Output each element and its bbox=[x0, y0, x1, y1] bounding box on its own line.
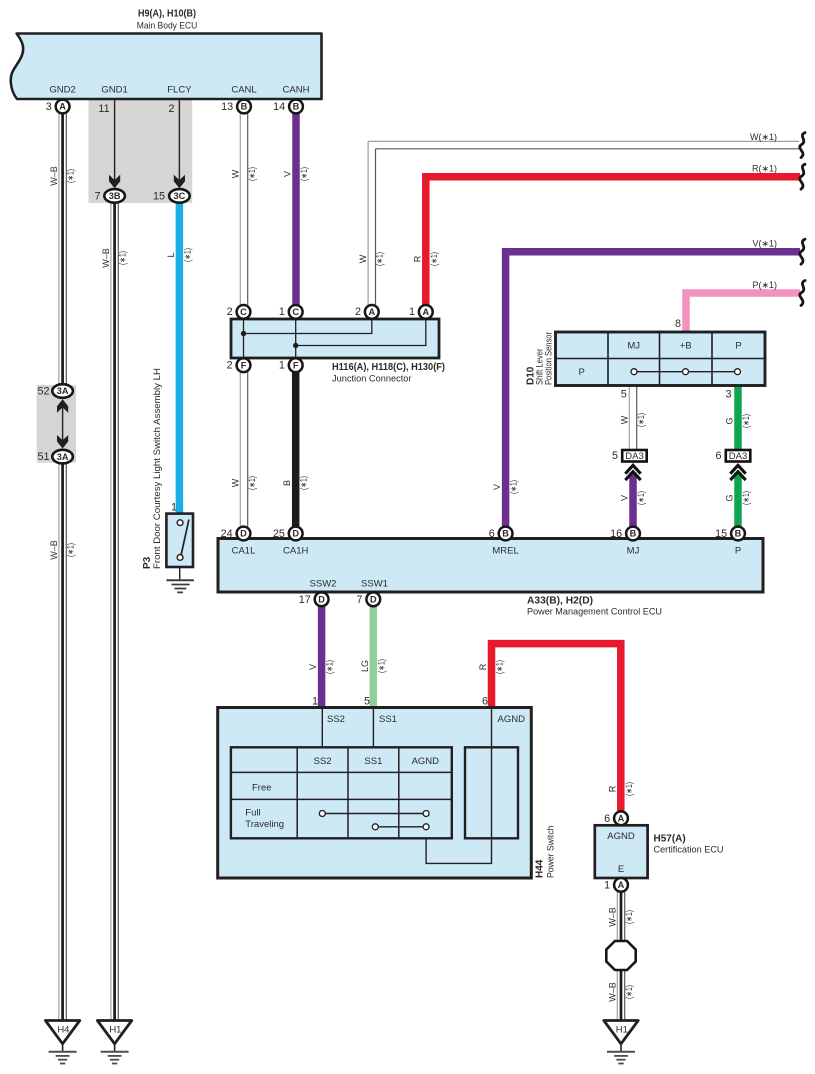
svg-text:P(∗1): P(∗1) bbox=[752, 280, 777, 290]
svg-text:25: 25 bbox=[273, 528, 285, 540]
svg-text:(∗1): (∗1) bbox=[299, 167, 309, 181]
link line between 3A connectors bbox=[62, 405, 64, 442]
P3 switch contact top bbox=[177, 520, 183, 526]
svg-text:DA3: DA3 bbox=[729, 451, 747, 462]
pin 14 circle B (CANH) bbox=[273, 100, 303, 114]
contact line SS2-AGND bbox=[322, 813, 426, 815]
svg-text:52: 52 bbox=[37, 386, 49, 398]
svg-text:W(∗1): W(∗1) bbox=[750, 132, 777, 142]
D10 contact circle P bbox=[735, 369, 741, 375]
break symbol P wire bbox=[800, 281, 805, 306]
svg-text:(∗1): (∗1) bbox=[325, 660, 335, 674]
svg-text:1: 1 bbox=[312, 696, 318, 708]
svg-text:(∗1): (∗1) bbox=[741, 414, 751, 428]
svg-text:B: B bbox=[735, 529, 742, 539]
shield gray box left (52/51 3A) bbox=[37, 385, 76, 463]
svg-text:AGND: AGND bbox=[498, 714, 526, 725]
P3 switch blade bbox=[181, 520, 189, 555]
svg-text:P: P bbox=[735, 546, 741, 557]
svg-text:7: 7 bbox=[94, 190, 100, 202]
svg-text:E: E bbox=[618, 864, 624, 875]
svg-text:H1: H1 bbox=[616, 1025, 628, 1036]
contact line SS1-AGND bbox=[375, 826, 426, 828]
wire W from D10 pin 5 down to DA3 bbox=[629, 386, 636, 449]
svg-text:5: 5 bbox=[364, 696, 370, 708]
junction pin 2 circle F bbox=[227, 358, 251, 372]
ground H1 (left) bbox=[97, 1021, 131, 1064]
H57 pin 6 circle A bbox=[604, 811, 628, 825]
main body ECU box H9/H10 bbox=[11, 34, 322, 100]
svg-text:B: B bbox=[241, 102, 248, 112]
svg-text:H1: H1 bbox=[109, 1025, 121, 1036]
svg-text:SSW2: SSW2 bbox=[310, 579, 337, 590]
svg-text:R: R bbox=[412, 255, 422, 262]
wire LG (light green) from SSW1 7(D) down to power switch SS1 bbox=[370, 605, 378, 707]
svg-text:(∗1): (∗1) bbox=[375, 252, 385, 266]
connector oval 52 3A bbox=[37, 384, 72, 398]
svg-text:C: C bbox=[292, 307, 299, 317]
D10 shift lever position sensor box bbox=[556, 332, 766, 386]
svg-text:R(∗1): R(∗1) bbox=[752, 164, 777, 174]
svg-text:L: L bbox=[166, 252, 176, 257]
svg-text:5: 5 bbox=[621, 389, 627, 401]
svg-text:3: 3 bbox=[46, 101, 52, 113]
svg-text:A: A bbox=[368, 307, 375, 317]
svg-text:H57(A): H57(A) bbox=[654, 834, 686, 845]
wire B (black) from junction 1(F) to CA1H 25(D) bbox=[292, 371, 300, 529]
svg-text:FLCY: FLCY bbox=[167, 85, 192, 96]
H57 pin 1 circle A bbox=[604, 878, 628, 892]
wire W-B from GND2 pin 3(A) down to connector 52(3A) bbox=[59, 112, 66, 385]
svg-text:(∗1): (∗1) bbox=[299, 476, 309, 490]
wire V (violet) from SSW2 17(D) down to power switch SS2 bbox=[318, 605, 326, 707]
svg-text:MJ: MJ bbox=[627, 546, 640, 557]
svg-text:R: R bbox=[478, 663, 488, 670]
svg-text:(∗1): (∗1) bbox=[429, 252, 439, 266]
power switch internal lead AGND bbox=[426, 708, 491, 864]
svg-text:2: 2 bbox=[355, 306, 361, 318]
junction internal wire 2C-2F bbox=[243, 319, 245, 358]
svg-text:51: 51 bbox=[37, 451, 49, 463]
svg-text:W–B: W–B bbox=[101, 248, 111, 268]
svg-text:CA1H: CA1H bbox=[283, 546, 308, 557]
junction pin 2 circle C bbox=[227, 305, 251, 319]
noise filter octagon bbox=[606, 941, 635, 970]
svg-text:(∗1): (∗1) bbox=[509, 480, 519, 494]
shield gray box top (GND1/FLCY to 3B/3C) bbox=[89, 99, 193, 203]
svg-text:6: 6 bbox=[482, 696, 488, 708]
svg-text:1: 1 bbox=[279, 306, 285, 318]
svg-text:1: 1 bbox=[604, 879, 610, 891]
junction node dot 1C bbox=[293, 343, 298, 348]
pin 13 circle B (CANL) bbox=[221, 100, 251, 114]
svg-text:V: V bbox=[283, 171, 293, 177]
svg-text:W: W bbox=[231, 478, 241, 487]
svg-text:H44: H44 bbox=[535, 859, 546, 878]
svg-text:CANH: CANH bbox=[283, 85, 310, 96]
svg-text:D: D bbox=[370, 595, 377, 605]
svg-text:SS2: SS2 bbox=[314, 756, 332, 767]
svg-text:SS2: SS2 bbox=[327, 714, 345, 725]
contact circle AGND lower bbox=[423, 824, 429, 830]
svg-text:MJ: MJ bbox=[627, 341, 640, 352]
svg-text:G: G bbox=[725, 494, 735, 501]
svg-text:7: 7 bbox=[356, 594, 362, 606]
svg-text:8: 8 bbox=[675, 318, 681, 330]
contact circle SS1 bbox=[372, 824, 378, 830]
svg-text:B: B bbox=[282, 480, 292, 486]
svg-text:CANL: CANL bbox=[231, 85, 256, 96]
D10 contact link line bbox=[634, 371, 738, 373]
svg-text:C: C bbox=[240, 307, 247, 317]
chevron arrows below DA3 left bbox=[625, 465, 640, 480]
certification ECU box H57 bbox=[595, 825, 648, 878]
svg-text:V(∗1): V(∗1) bbox=[752, 239, 777, 249]
svg-text:V: V bbox=[308, 664, 318, 670]
wire V (violet) from DA3 down to MJ 16(B) bbox=[629, 473, 637, 529]
svg-text:3A: 3A bbox=[57, 452, 69, 462]
pin 11 wire with arrow into 3B bbox=[98, 99, 120, 188]
svg-text:W–B: W–B bbox=[49, 540, 59, 560]
power switch internal lead SS1 bbox=[372, 708, 374, 748]
ground H1 (right) bbox=[604, 1021, 638, 1064]
svg-text:D: D bbox=[292, 529, 299, 539]
svg-text:P: P bbox=[579, 367, 585, 378]
P3 front door courtesy light switch box bbox=[166, 514, 193, 567]
svg-text:1: 1 bbox=[171, 502, 177, 514]
svg-text:(∗1): (∗1) bbox=[376, 659, 386, 673]
svg-text:2: 2 bbox=[227, 306, 233, 318]
svg-text:+B: +B bbox=[680, 341, 692, 352]
arrow down into 51 bbox=[57, 435, 68, 449]
D10 row divider bbox=[556, 358, 766, 360]
svg-text:A33(B), H2(D): A33(B), H2(D) bbox=[527, 596, 593, 607]
wire P (pink) from D10 pin 8 up and right to break bbox=[686, 293, 800, 332]
junction node dot 2C bbox=[241, 331, 246, 336]
wire R (red) from junction 1(A) up and right to break bbox=[426, 177, 800, 306]
svg-text:W: W bbox=[358, 254, 368, 263]
svg-text:(∗1): (∗1) bbox=[624, 910, 634, 924]
svg-text:Traveling: Traveling bbox=[245, 819, 284, 830]
table row dividers bbox=[231, 772, 452, 799]
svg-text:14: 14 bbox=[273, 101, 285, 113]
junction pin 1 circle C bbox=[279, 305, 303, 319]
svg-text:(∗1): (∗1) bbox=[636, 491, 646, 505]
wire G (green) from D10 pin 3 down to DA3 bbox=[734, 386, 742, 449]
svg-text:SSW1: SSW1 bbox=[361, 579, 388, 590]
svg-text:(∗1): (∗1) bbox=[247, 167, 257, 181]
PM ECU pin 24 circle D bbox=[221, 527, 251, 541]
svg-text:6: 6 bbox=[715, 450, 721, 462]
arrow up into 52 bbox=[57, 399, 68, 413]
svg-text:B: B bbox=[293, 102, 300, 112]
splice DA3 left pin 5 bbox=[612, 450, 647, 462]
svg-text:1: 1 bbox=[409, 306, 415, 318]
svg-text:A: A bbox=[422, 307, 429, 317]
svg-text:AGND: AGND bbox=[412, 756, 440, 767]
junction internal wire branch to 1A bbox=[296, 319, 426, 346]
svg-text:24: 24 bbox=[221, 528, 233, 540]
svg-text:3B: 3B bbox=[109, 191, 121, 201]
P3 switch contact bottom bbox=[177, 555, 183, 561]
power switch box H44 bbox=[218, 708, 532, 879]
table column dividers bbox=[297, 747, 399, 838]
svg-text:CA1L: CA1L bbox=[232, 546, 256, 557]
svg-text:1: 1 bbox=[279, 360, 285, 372]
wire W-B from H57 1(A) down to octagon bbox=[617, 892, 624, 942]
svg-text:Front Door Courtesy Light Swit: Front Door Courtesy Light Switch Assembl… bbox=[152, 368, 163, 569]
svg-text:5: 5 bbox=[612, 450, 618, 462]
svg-text:W–B: W–B bbox=[49, 166, 59, 186]
splice DA3 right pin 6 bbox=[715, 450, 750, 462]
PM ECU pin 17 circle D bbox=[299, 592, 329, 606]
ground H4 bbox=[45, 1021, 79, 1064]
wire W-B from octagon down to ground H1 (right) bbox=[617, 970, 624, 1022]
svg-text:17: 17 bbox=[299, 594, 311, 606]
svg-text:R: R bbox=[607, 785, 617, 792]
svg-text:D: D bbox=[240, 529, 247, 539]
break symbol W wire bbox=[800, 133, 805, 158]
chevron arrows below DA3 right bbox=[730, 465, 745, 480]
wire W-B from connector 3B down to ground H1 bbox=[111, 202, 118, 1021]
break symbol V wire bbox=[800, 239, 805, 264]
P3 ground stem bbox=[179, 567, 181, 580]
PM ECU pin 6 circle B bbox=[489, 527, 513, 541]
PM ECU pin 25 circle D bbox=[273, 527, 303, 541]
power management control ECU box A33/H2 bbox=[218, 539, 763, 593]
svg-text:LG: LG bbox=[360, 660, 370, 672]
wire L (blue) from connector 3C down to P3 switch bbox=[176, 202, 184, 515]
D10 contact circle +B bbox=[683, 369, 689, 375]
svg-text:W–B: W–B bbox=[608, 907, 618, 927]
svg-text:3: 3 bbox=[725, 389, 731, 401]
svg-text:V: V bbox=[492, 484, 502, 490]
svg-text:SS1: SS1 bbox=[379, 714, 397, 725]
svg-text:V: V bbox=[620, 495, 630, 501]
svg-text:G: G bbox=[725, 417, 735, 424]
pin 3 circle A (GND2) bbox=[46, 100, 70, 114]
svg-text:W: W bbox=[620, 415, 630, 424]
svg-text:AGND: AGND bbox=[607, 831, 635, 842]
power switch contact table bbox=[231, 747, 452, 838]
svg-text:W: W bbox=[231, 169, 241, 178]
P3 ground bars bbox=[166, 580, 194, 592]
svg-text:Main Body ECU: Main Body ECU bbox=[137, 21, 198, 32]
wire W(*1) from junction 2(A) up and right to break bbox=[368, 141, 799, 305]
junction pin 1 circle A bbox=[409, 305, 433, 319]
svg-text:6: 6 bbox=[489, 528, 495, 540]
svg-text:H116(A), H118(C), H130(F): H116(A), H118(C), H130(F) bbox=[332, 362, 445, 373]
junction pin 1 circle F bbox=[279, 358, 303, 372]
connector oval 3C pin 15 bbox=[153, 189, 190, 203]
svg-text:SS1: SS1 bbox=[364, 756, 382, 767]
svg-text:MREL: MREL bbox=[492, 546, 518, 557]
svg-text:Free: Free bbox=[252, 783, 272, 794]
D10 contact circle MJ bbox=[631, 369, 637, 375]
pin 2 wire with arrow into 3C bbox=[168, 99, 185, 188]
svg-text:(∗1): (∗1) bbox=[66, 543, 76, 557]
svg-text:Power Switch: Power Switch bbox=[546, 826, 556, 879]
junction internal wire 1C-1F bbox=[295, 319, 297, 358]
wire W-B from connector 51(3A) down to ground H4 bbox=[59, 463, 66, 1021]
svg-text:DA3: DA3 bbox=[625, 451, 643, 462]
svg-text:D: D bbox=[318, 595, 325, 605]
svg-text:Power Management Control ECU: Power Management Control ECU bbox=[527, 607, 662, 618]
svg-text:(∗1): (∗1) bbox=[636, 413, 646, 427]
svg-text:A: A bbox=[59, 102, 66, 112]
svg-text:H9(A), H10(B): H9(A), H10(B) bbox=[138, 9, 196, 20]
contact circle AGND upper bbox=[423, 811, 429, 817]
svg-text:Certification ECU: Certification ECU bbox=[654, 845, 724, 856]
D10 column dividers bbox=[608, 332, 712, 386]
svg-text:(∗1): (∗1) bbox=[247, 476, 257, 490]
svg-text:Position Sensor: Position Sensor bbox=[544, 332, 554, 385]
contact circle SS2 bbox=[319, 811, 325, 817]
svg-text:A: A bbox=[618, 814, 625, 824]
connector oval 51 3A bbox=[37, 450, 72, 464]
junction pin 2 circle A bbox=[355, 305, 379, 319]
PM ECU pin 7 circle D bbox=[356, 592, 380, 606]
svg-text:F: F bbox=[293, 360, 299, 370]
wire V (violet) from CANH 14(B) to junction 1(C) bbox=[292, 113, 300, 307]
svg-text:F: F bbox=[241, 360, 247, 370]
svg-text:H4: H4 bbox=[57, 1025, 69, 1036]
power switch inner right box bbox=[465, 747, 518, 838]
svg-text:16: 16 bbox=[610, 528, 622, 540]
wire V (violet) MREL from 6(B) up and right to break bbox=[506, 252, 800, 529]
svg-text:11: 11 bbox=[98, 103, 109, 115]
svg-text:A: A bbox=[618, 880, 625, 890]
svg-text:2: 2 bbox=[227, 360, 233, 372]
svg-text:Junction Connector: Junction Connector bbox=[332, 374, 412, 385]
svg-text:3C: 3C bbox=[174, 191, 186, 201]
svg-text:Full: Full bbox=[245, 808, 260, 819]
svg-text:P: P bbox=[735, 341, 741, 352]
junction connector box H116/H118/H130 bbox=[231, 319, 439, 358]
svg-text:GND2: GND2 bbox=[49, 85, 75, 96]
svg-text:13: 13 bbox=[221, 101, 233, 113]
wire R (red) from power switch AGND up over to H57 6(A) bbox=[492, 644, 621, 812]
break symbol R wire bbox=[800, 164, 805, 189]
svg-text:(∗1): (∗1) bbox=[624, 782, 634, 796]
svg-text:2: 2 bbox=[168, 103, 174, 115]
connector oval 3B pin 7 bbox=[94, 189, 124, 203]
svg-text:W–B: W–B bbox=[608, 982, 618, 1002]
svg-text:6: 6 bbox=[604, 813, 610, 825]
power switch internal lead SS2 bbox=[321, 708, 323, 748]
wire G (green) from DA3 down to P 15(B) bbox=[734, 473, 742, 529]
svg-text:(∗1): (∗1) bbox=[495, 660, 505, 674]
PM ECU pin 16 circle B bbox=[610, 527, 640, 541]
svg-text:GND1: GND1 bbox=[101, 85, 127, 96]
junction internal wire branch to 2A bbox=[244, 319, 372, 334]
svg-text:B: B bbox=[502, 529, 509, 539]
svg-text:15: 15 bbox=[153, 190, 165, 202]
wire W from CANL 13(B) to junction 2(C) bbox=[240, 113, 247, 307]
svg-text:15: 15 bbox=[715, 528, 727, 540]
wire W from junction 2(F) to CA1L 24(D) bbox=[240, 371, 247, 529]
svg-text:(∗1): (∗1) bbox=[741, 491, 751, 505]
svg-text:(∗1): (∗1) bbox=[624, 985, 634, 999]
svg-text:3A: 3A bbox=[57, 386, 69, 396]
svg-text:(∗1): (∗1) bbox=[118, 251, 128, 265]
svg-text:(∗1): (∗1) bbox=[66, 169, 76, 183]
PM ECU pin 15 circle B bbox=[715, 527, 745, 541]
svg-text:B: B bbox=[630, 529, 637, 539]
svg-text:(∗1): (∗1) bbox=[182, 248, 192, 262]
